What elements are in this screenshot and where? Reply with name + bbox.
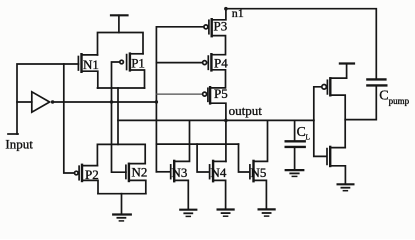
svg-text:N2: N2: [132, 164, 148, 179]
svg-text:P3: P3: [214, 18, 228, 33]
svg-text:P1: P1: [131, 56, 145, 71]
svg-text:C: C: [297, 124, 306, 139]
svg-text:output: output: [229, 103, 263, 118]
svg-text:n1: n1: [232, 6, 244, 20]
svg-text:Input: Input: [5, 136, 33, 151]
svg-text:P5: P5: [214, 86, 228, 101]
svg-text:C: C: [379, 88, 388, 103]
svg-text:N5: N5: [251, 165, 267, 180]
svg-text:N3: N3: [172, 165, 188, 180]
svg-text:pump: pump: [389, 96, 410, 106]
svg-text:N4: N4: [211, 165, 227, 180]
svg-text:L: L: [305, 132, 310, 141]
svg-text:N1: N1: [83, 57, 99, 72]
svg-text:P4: P4: [214, 55, 228, 70]
svg-text:P2: P2: [85, 167, 99, 182]
